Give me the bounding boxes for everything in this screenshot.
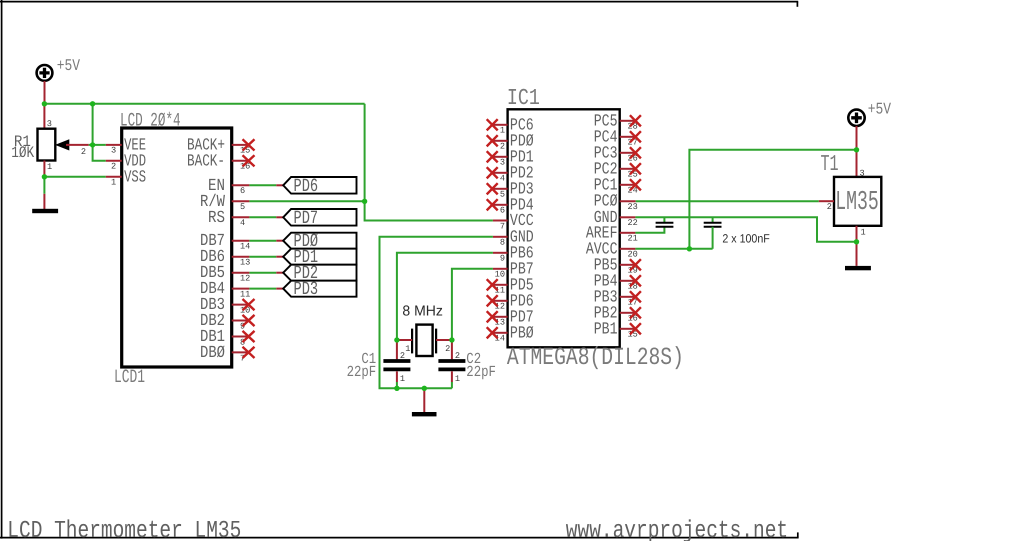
resistor R1 pin 3 wire	[43, 104, 45, 129]
svg-text:LCD1: LCD1	[114, 366, 145, 388]
svg-text:23: 23	[628, 202, 638, 212]
crystal Q1 pin 2 stub	[436, 339, 452, 341]
svg-text:PB1: PB1	[594, 319, 618, 339]
svg-text:3: 3	[500, 158, 505, 168]
svg-text:4: 4	[500, 174, 505, 184]
svg-text:1: 1	[405, 344, 410, 354]
IC1 pin 15 PB1	[594, 319, 641, 340]
wire PB6 net to crystal left	[397, 253, 493, 340]
capacitor C3 100nF plates	[656, 223, 674, 227]
LCD1 pin BACK+ no-connect X	[243, 139, 255, 150]
capacitor C4 100nF stub to GND wire	[712, 217, 714, 222]
svg-text:PD7: PD7	[294, 207, 319, 228]
svg-text:PBØ: PBØ	[510, 323, 534, 343]
svg-text:8: 8	[500, 238, 505, 248]
wire +5V left pin	[44, 81, 46, 104]
svg-text:1: 1	[455, 374, 460, 384]
LCD1 pin DB1 stub	[232, 336, 250, 338]
svg-text:1ØK: 1ØK	[11, 143, 34, 162]
IC1 pin 17 PB3	[594, 287, 641, 308]
IC1 pin 28 PC5	[594, 111, 641, 132]
svg-text:11: 11	[240, 290, 250, 300]
capacitor C2 pin 1 stub	[451, 371, 453, 382]
node junction at +5V left	[42, 101, 47, 106]
IC1 pin 3 PD1	[487, 147, 534, 168]
wire GND pin22 net to T1 ground	[635, 217, 856, 242]
resistor R1 pin 1 wire	[43, 161, 45, 177]
resistor R1 wiper pin wire	[66, 144, 89, 146]
ground crystal pin wire	[423, 388, 425, 412]
svg-text:22pF: 22pF	[466, 363, 496, 381]
capacitor C1 plates	[383, 361, 410, 369]
svg-text:ATMEGA8(DIL28S): ATMEGA8(DIL28S)	[507, 344, 684, 372]
frame border	[0, 0, 799, 539]
IC1 pin 11 PD5	[487, 275, 534, 296]
svg-text:www.avrprojects.net: www.avrprojects.net	[566, 517, 788, 541]
wire C2 to ground rail	[451, 382, 453, 388]
T1 pin 2 stub	[819, 200, 834, 202]
svg-text:2: 2	[81, 147, 86, 157]
IC1 pin 6 PD4	[487, 195, 534, 216]
IC1 pin 9 PB6	[493, 243, 534, 264]
capacitor C1 pin 2 stub	[396, 340, 398, 359]
IC1 pin 13 PD7	[487, 307, 534, 328]
net flag PD7	[276, 207, 356, 228]
wire DB7 to PD0 flag	[249, 240, 276, 242]
ground symbol left	[32, 209, 58, 213]
svg-text:VSS: VSS	[124, 167, 146, 187]
svg-text:14: 14	[240, 242, 250, 252]
LCD1 pin BACK- no-connect X	[243, 155, 255, 166]
svg-text:LM35: LM35	[835, 188, 879, 218]
svg-text:22pF: 22pF	[347, 363, 377, 381]
svg-text:PD6: PD6	[294, 175, 319, 196]
svg-text:BACK-: BACK-	[187, 151, 225, 171]
ground symbol crystal	[412, 412, 437, 416]
node junction VSS	[42, 174, 47, 179]
svg-text:1: 1	[400, 374, 405, 384]
capacitor C2 plates	[438, 361, 465, 369]
resistor R1 body	[38, 129, 56, 161]
node junction C1 ground rail	[394, 386, 399, 391]
LCD1 pin DB0 no-connect X	[243, 347, 255, 358]
IC1 pin 4 PD2	[487, 163, 534, 184]
svg-text:LCD 2Ø*4: LCD 2Ø*4	[120, 109, 181, 131]
svg-text:5: 5	[240, 202, 245, 212]
svg-text:2: 2	[500, 142, 505, 152]
supply +5V right symbol	[848, 110, 864, 126]
LCD1 pin DB0 stub	[232, 351, 250, 353]
node junction crystal right	[449, 337, 454, 342]
svg-text:PD3: PD3	[294, 279, 319, 300]
resistor R1 wiper arrow	[55, 139, 69, 150]
IC1 pin 24 PC1	[594, 175, 641, 196]
svg-text:22: 22	[628, 218, 638, 228]
IC1 pin 2 PD0	[487, 131, 534, 152]
svg-text:+5V: +5V	[868, 100, 891, 119]
wire GND pin8 net to crystal ground rail	[380, 237, 493, 388]
svg-text:6: 6	[240, 186, 245, 196]
crystal Q1 body	[412, 325, 436, 356]
svg-text:20: 20	[628, 250, 638, 260]
node junction crystal left	[394, 337, 399, 342]
node junction T1 ground	[854, 239, 859, 244]
wire DB5 to PD2 flag	[249, 272, 276, 274]
node junction ground rail center	[422, 386, 427, 391]
LCD1 pin RS stub	[232, 216, 250, 218]
wire R/W net	[249, 200, 364, 202]
ground left pin wire	[43, 194, 45, 209]
svg-text:1: 1	[861, 228, 866, 238]
net flag PD2	[276, 263, 356, 284]
capacitor C4 stub to AVCC wire	[712, 227, 714, 249]
svg-text:4: 4	[240, 218, 245, 228]
svg-text:T1: T1	[821, 150, 839, 177]
svg-text:2: 2	[827, 202, 832, 212]
node junction R/W	[362, 199, 367, 204]
svg-text:21: 21	[628, 234, 638, 244]
supply +5V left symbol	[37, 65, 53, 81]
IC1 pin 14 PB0	[487, 323, 534, 344]
node junction wiper VDD rail	[90, 142, 95, 147]
LCD1 pin DB5 stub	[232, 272, 250, 274]
IC1 pin 20 AVCC	[586, 239, 638, 260]
svg-text:3: 3	[111, 146, 116, 156]
net flag PD1	[276, 247, 356, 268]
wire top rail +5V to R/W column	[44, 103, 364, 105]
IC1 pin 18 PB4	[594, 271, 641, 292]
T1 box	[834, 177, 881, 226]
LCD1 pin VSS stub	[106, 176, 122, 178]
LCD1 pin DB6 stub	[232, 256, 250, 258]
svg-text:1: 1	[47, 162, 52, 172]
svg-text:1: 1	[500, 126, 505, 136]
LCD1 pin DB2 no-connect X	[243, 315, 255, 326]
wire vertical to R/W junction	[364, 104, 366, 202]
svg-text:RS: RS	[208, 208, 225, 228]
IC1 pin 16 PB2	[594, 303, 641, 324]
IC1 box	[508, 109, 620, 347]
svg-text:7: 7	[500, 221, 505, 231]
wire VSS net	[44, 176, 105, 178]
LCD1 pin BACK+ stub	[232, 144, 250, 146]
IC1 pin 10 PB7	[493, 259, 534, 280]
svg-text:DBØ: DBØ	[200, 343, 225, 363]
T1 pin 3 wire	[856, 150, 858, 177]
svg-text:LCD Thermometer LM35: LCD Thermometer LM35	[7, 517, 241, 541]
LCD1 pin DB1 no-connect X	[243, 331, 255, 342]
wire EN to PD6 flag	[249, 184, 276, 186]
node junction +5V right	[854, 147, 859, 152]
IC1 pin 27 PC4	[594, 127, 641, 148]
wire DB4 to PD3 flag	[249, 288, 276, 290]
T1 pin 1 wire	[856, 226, 858, 242]
IC1 pin 23 PC0	[594, 191, 638, 212]
IC1 pin 25 PC2	[594, 159, 641, 180]
wire R/W junction down to VCC rail	[365, 201, 493, 220]
wire DB6 to PD1 flag	[249, 256, 276, 258]
svg-text:10: 10	[495, 270, 505, 280]
IC1 pin 22 GND	[594, 208, 638, 229]
LCD1 pin VDD stub	[106, 160, 122, 162]
svg-text:9: 9	[500, 254, 505, 264]
IC1 pin 7 VCC	[493, 211, 534, 232]
IC1 pin 12 PD6	[487, 291, 534, 312]
svg-text:13: 13	[240, 258, 250, 268]
svg-text:6: 6	[500, 206, 505, 216]
net flag PD0	[276, 231, 356, 252]
LCD1 pin DB4 stub	[232, 288, 250, 290]
IC1 pin 26 PC3	[594, 143, 641, 164]
wire AVCC to +5V rail	[689, 150, 856, 249]
capacitor C4 100nF plates	[704, 223, 722, 227]
wire crystal ground rail	[397, 387, 452, 389]
wire C1 to ground rail	[396, 382, 398, 388]
IC1 pin 1 PC6	[487, 115, 534, 136]
net flag PD6	[276, 175, 356, 196]
svg-text:IC1: IC1	[507, 87, 540, 112]
LCD1 pin DB3 no-connect X	[243, 299, 255, 310]
wire PB7 net to crystal right	[452, 269, 493, 340]
node junction AVCC	[687, 246, 692, 251]
LCD1 pin BACK- stub	[232, 160, 250, 162]
LCD1 pin DB2 stub	[232, 320, 250, 322]
LCD1 pin DB7 stub	[232, 240, 250, 242]
LCD1 pin EN stub	[232, 184, 250, 186]
capacitor C2 pin 2 stub	[451, 340, 453, 359]
wire AVCC net	[635, 248, 712, 250]
wire RS to PD7 flag	[249, 216, 276, 218]
wire PC0 net to T1 pin 2	[636, 200, 819, 202]
wire down to ground left	[43, 177, 45, 194]
svg-text:3: 3	[47, 119, 52, 129]
LCD1 pin R/W stub	[232, 200, 250, 202]
svg-text:2: 2	[111, 162, 116, 172]
wire +5V right pin	[856, 126, 858, 150]
wire AREF net to capacitor C3	[635, 227, 664, 233]
svg-text:+5V: +5V	[57, 56, 80, 75]
LCD1 box	[122, 128, 232, 367]
crystal Q1 pin 1 stub	[397, 339, 412, 341]
svg-text:5: 5	[500, 190, 505, 200]
ground T1 pin wire	[856, 242, 858, 266]
IC1 pin 21 AREF	[586, 223, 638, 244]
ground symbol T1	[845, 266, 871, 270]
svg-text:2: 2	[445, 344, 450, 354]
node junction VDD branch	[90, 101, 95, 106]
svg-text:1: 1	[111, 178, 116, 188]
IC1 pin 5 PD3	[487, 179, 534, 200]
LCD1 pin DB3 stub	[232, 304, 250, 306]
IC1 pin 8 GND	[493, 227, 534, 248]
IC1 pin 19 PB5	[594, 255, 641, 276]
svg-text:8 MHz: 8 MHz	[402, 304, 443, 320]
LCD1 pin VEE stub	[106, 144, 122, 146]
net flag PD3	[276, 279, 356, 300]
wire wiper to VEE	[89, 144, 106, 146]
svg-text:2 x 100nF: 2 x 100nF	[722, 231, 769, 245]
wire VDD branch	[93, 104, 106, 161]
capacitor C3 100nF stub to GND wire	[663, 217, 665, 222]
svg-text:12: 12	[240, 274, 250, 284]
capacitor C1 pin 1 stub	[396, 371, 398, 382]
